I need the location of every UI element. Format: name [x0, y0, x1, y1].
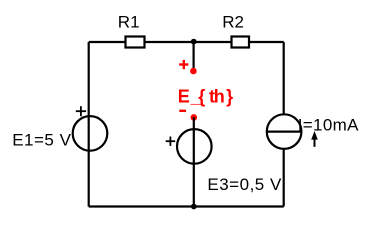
wire: top-left segment (E1 top to R1)	[89, 41, 126, 43]
wire: left branch vertical (through E1)	[88, 42, 90, 207]
current direction arrow	[311, 131, 318, 147]
terminal dot Eth+ (red)	[190, 68, 197, 75]
terminal dot Eth- (red)	[191, 114, 198, 121]
wire: Eth- terminal down through E3 to bottom	[193, 117, 195, 206]
wire: right branch vertical	[283, 42, 285, 207]
wire: node A to R2	[194, 41, 232, 43]
wire: R1 to node A	[143, 41, 194, 43]
voltage source E1 (circle)	[73, 116, 108, 151]
wire: node A down to Eth+ terminal	[193, 42, 195, 70]
wire: R2 to top-right corner	[248, 41, 284, 43]
polarity + for E1	[76, 106, 86, 116]
voltage source E3 (circle)	[177, 129, 212, 164]
current source I1 (circle with bar)	[266, 114, 302, 149]
svg-text:R1: R1	[118, 13, 140, 32]
svg-text:I=10mA: I=10mA	[298, 116, 359, 135]
polarity + for Eth (red)	[179, 60, 188, 69]
svg-text:R2: R2	[222, 13, 244, 32]
wire: bottom (node B rail)	[89, 205, 284, 207]
node A junction dot	[191, 39, 197, 45]
resistor R1	[126, 37, 145, 48]
polarity - for Eth (red)	[179, 110, 186, 112]
polarity + for E3	[166, 137, 176, 146]
resistor R2	[232, 37, 250, 48]
svg-text:E1=5 V: E1=5 V	[12, 130, 71, 149]
node B junction dot	[191, 204, 197, 210]
svg-text:E3=0,5 V: E3=0,5 V	[207, 175, 282, 194]
